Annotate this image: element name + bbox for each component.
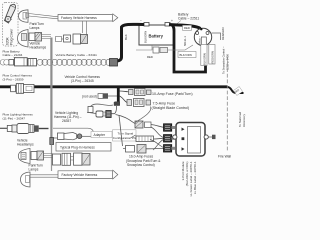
plow battery cable row: [0, 58, 36, 66]
crossing wires into module rows: [150, 127, 164, 150]
svg-text:Cable – 22511: Cable – 22511: [178, 17, 199, 21]
fuse under battery: [136, 45, 193, 59]
svg-text:(Straight Blade Control): (Straight Blade Control): [152, 106, 190, 110]
plug cover box: [3, 3, 19, 47]
svg-text:−: −: [140, 19, 142, 23]
headlamp connector pair: [29, 33, 42, 42]
vehicle battery cable loom: [37, 59, 112, 65]
svg-text:Lamps: Lamps: [29, 168, 39, 172]
wire fuse row2 to row A: [135, 107, 151, 123]
RED label box: [183, 25, 192, 30]
BLK/ORN label box: [178, 52, 196, 58]
svg-text:Accessory: Accessory: [242, 113, 246, 127]
svg-text:BLK: BLK: [124, 34, 128, 40]
battery positive cable to solenoid: [169, 25, 201, 29]
svg-text:Lamps: Lamps: [30, 26, 40, 30]
3-port module: [173, 123, 216, 157]
svg-text:Battery: Battery: [149, 34, 164, 39]
connector assembly on control wire: [11, 84, 34, 94]
svg-text:10-Amp Fuse (Park/Turn): 10-Amp Fuse (Park/Turn): [152, 92, 193, 96]
RED label at jog: [233, 87, 242, 96]
label boxes below solenoid: [201, 45, 215, 66]
wire park/turn to banner: [29, 14, 58, 19]
svg-text:Headlamps: Headlamps: [17, 143, 34, 147]
branch to fuse1: [120, 90, 129, 93]
svg-text:BLK/ORN: BLK/ORN: [144, 31, 148, 43]
factory vehicle harness banner (bottom): [58, 170, 118, 179]
wire loop adapter up: [91, 104, 114, 106]
headlamp top: [18, 30, 29, 48]
svg-text:Relay –: Relay –: [198, 35, 202, 45]
plow lighting row: [0, 124, 94, 134]
svg-text:Adapter: Adapter: [94, 133, 106, 137]
svg-text:Typical Plug-In Harness: Typical Plug-In Harness: [60, 146, 95, 150]
firewall line: [226, 57, 228, 152]
svg-text:Snowplow Control): Snowplow Control): [127, 163, 155, 167]
firewall jog: [228, 87, 244, 93]
bottom mid connectors: [53, 153, 91, 165]
svg-text:56131-1: 56131-1: [183, 36, 187, 46]
plug at bar end: [114, 102, 120, 106]
turn signal configuration plug label: [113, 130, 137, 141]
vertical lamp feed line: [50, 38, 52, 138]
svg-text:Cable – 21294: Cable – 21294: [3, 53, 23, 57]
battery positive branch down: [172, 25, 206, 72]
wire solenoid right: [212, 33, 221, 40]
solenoid circle: [194, 28, 211, 46]
svg-text:RED: RED: [184, 26, 190, 30]
svg-text:26357: 26357: [62, 119, 71, 123]
svg-text:Factory Vehicle Harness: Factory Vehicle Harness: [62, 173, 98, 177]
svg-text:RED/GRN: RED/GRN: [211, 51, 215, 63]
7.5-amp fuse row: [127, 99, 151, 107]
svg-text:Plug Cover: Plug Cover: [10, 28, 14, 45]
svg-text:(not used): (not used): [82, 94, 97, 98]
wires to module rows: [116, 115, 136, 124]
svg-text:BLK/ORN: BLK/ORN: [203, 53, 207, 65]
svg-text:Factory Vehicle Harness: Factory Vehicle Harness: [61, 16, 97, 20]
vehicle lighting connector pair: [87, 107, 111, 118]
main control wire: [0, 85, 228, 88]
svg-text:RED: RED: [147, 55, 153, 59]
svg-text:To Snowplow Control –: To Snowplow Control –: [222, 46, 226, 74]
svg-text:6292 or 9400: 6292 or 9400: [226, 54, 230, 70]
svg-text:(3-Pin) – 26359: (3-Pin) – 26359: [3, 77, 24, 81]
svg-text:Configuration Plug: Configuration Plug: [113, 136, 139, 140]
headlamp bottom: [18, 149, 30, 164]
svg-text:RED/GRN: RED/GRN: [221, 28, 225, 40]
loom end connector: [110, 59, 118, 67]
10-amp fuse row: [129, 89, 152, 96]
svg-text:Vehicle Battery Cable – 63411: Vehicle Battery Cable – 63411: [56, 53, 98, 57]
typical plug-in harness box: [56, 143, 111, 152]
adapter row: [54, 133, 92, 140]
svg-text:LL Blue Label – 29760-1: LL Blue Label – 29760-1: [193, 161, 197, 194]
battery: [139, 19, 174, 45]
connector on vertical: [50, 138, 54, 145]
row B to module: [136, 135, 175, 142]
svg-text:BLK/ORN: BLK/ORN: [180, 53, 192, 57]
park/turn lamp bottom: [21, 172, 31, 187]
banner drop wires: [83, 21, 87, 36]
svg-text:Headlamps: Headlamps: [30, 45, 47, 49]
headlamp bottom connector: [31, 151, 44, 160]
row A to module: [135, 121, 175, 132]
park/turn lamp top: [19, 10, 29, 22]
svg-text:(11-Pin) – 26347: (11-Pin) – 26347: [3, 116, 26, 120]
svg-text:7.5-Amp Fuse: 7.5-Amp Fuse: [153, 101, 176, 105]
svg-text:(3-Pin) – 26345: (3-Pin) – 26345: [71, 79, 94, 83]
wires bottom headlamp row: [44, 154, 53, 158]
battery negative cable to plow: [117, 24, 144, 61]
wires park/turn bottom to banner: [30, 175, 58, 177]
svg-text:Turn Signal: Turn Signal: [118, 131, 134, 135]
connectors under banner: [55, 34, 88, 44]
factory vehicle harness banner (top): [58, 14, 118, 22]
svg-text:+: +: [171, 19, 173, 23]
row C to module: [123, 145, 175, 154]
svg-text:Fire Wall: Fire Wall: [218, 155, 231, 159]
branch to fuse2: [120, 96, 128, 103]
vertical drop below main wire: [117, 88, 120, 102]
wires headlamp to vertical: [42, 35, 52, 39]
adapter label: [91, 132, 112, 138]
